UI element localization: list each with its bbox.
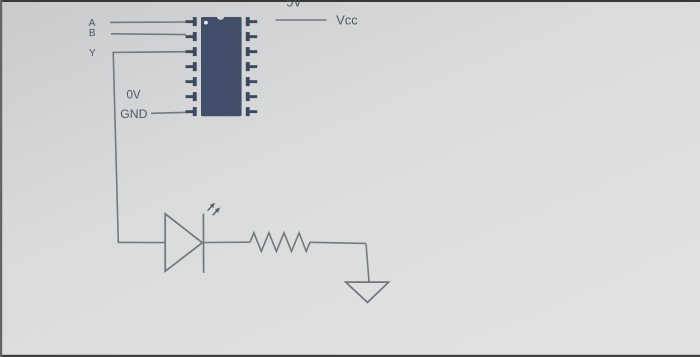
svg-text:0V: 0V	[127, 89, 141, 101]
wire B to pin 2	[111, 33, 186, 36]
wire LED cathode to resistor	[203, 241, 250, 243]
U1 pin 4	[186, 62, 197, 71]
IC U1 notch	[217, 17, 224, 20]
U1 pin 13	[246, 32, 257, 41]
svg-text:B: B	[89, 28, 96, 39]
U1 pin 6	[186, 92, 197, 101]
wire GND to pin 7	[151, 112, 188, 113]
LED D1 triangle	[165, 214, 203, 273]
ground symbol	[346, 282, 389, 302]
wire resistor to corner	[310, 242, 366, 243]
resistor R1	[250, 233, 310, 252]
U1 pin 5	[186, 77, 197, 86]
svg-text:Y: Y	[89, 48, 96, 59]
IC U1 pin 1 dot	[204, 21, 208, 25]
U1 pin 3	[186, 47, 197, 56]
U1 pin 7	[186, 107, 197, 116]
U1 pin 1	[186, 17, 197, 26]
wire A to pin 1	[110, 21, 188, 23]
U1 pin 8	[246, 107, 257, 116]
LED D1 emission arrow 1	[208, 203, 215, 211]
LED D1 cathode bar	[202, 214, 204, 273]
wire Y vertical down	[113, 52, 118, 243]
IC U1 body	[201, 17, 242, 116]
U1 pin 9	[246, 92, 257, 101]
U1 pin 11	[246, 62, 257, 71]
U1 pin 10	[246, 77, 257, 86]
wire down to ground	[366, 243, 369, 281]
LED D1 emission arrow 2	[213, 207, 220, 215]
svg-text:Vcc: Vcc	[336, 13, 358, 28]
wire Y horizontal to pin 3	[113, 51, 188, 54]
svg-text:5V: 5V	[286, 0, 302, 10]
wire to LED anode	[118, 241, 166, 243]
svg-text:GND: GND	[120, 107, 147, 121]
U1 pin 12	[246, 47, 257, 56]
wire Vcc rail	[276, 19, 327, 21]
U1 pin 2	[186, 32, 197, 41]
U1 pin 14	[246, 17, 257, 26]
